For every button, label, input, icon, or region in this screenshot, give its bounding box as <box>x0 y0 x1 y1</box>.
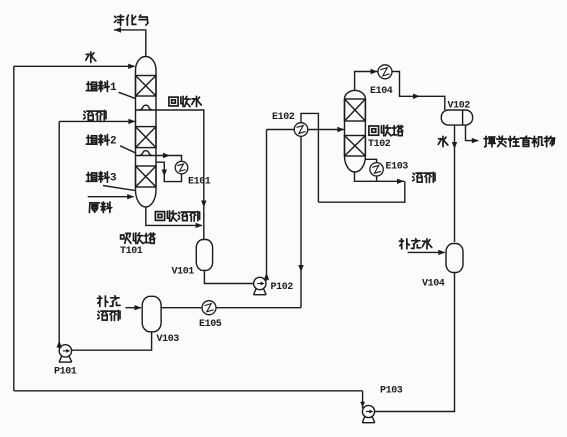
arrow overhead vapour to E104 <box>371 69 378 74</box>
vessel V101 <box>196 240 212 271</box>
label 水 <box>86 52 96 63</box>
chimney tray 1 of T101 <box>136 105 157 110</box>
label 吸收塔 <box>121 233 155 244</box>
arrow recovered solvent to junction <box>196 223 203 228</box>
arrow purified-gas outlet <box>114 27 121 32</box>
packing bed 3 of T101 <box>136 166 157 187</box>
arrow condensate to V102 <box>413 94 420 99</box>
label 填料3 <box>86 172 116 185</box>
pump P101 <box>59 345 72 362</box>
packing bed 2 of T101 <box>136 127 157 148</box>
wire water leg V102 to V104 <box>454 125 456 242</box>
separator drum V102 <box>441 110 472 125</box>
wire recovered solvent line <box>146 207 202 225</box>
svg-text:V101: V101 <box>172 267 195 278</box>
heat exchanger E104 <box>378 65 392 79</box>
wire lean solvent into E102 top <box>301 113 318 202</box>
wire E101 return to T101 <box>156 162 182 181</box>
pump P102 <box>254 277 267 294</box>
svg-text:3: 3 <box>110 173 117 185</box>
leader line for 填料2 <box>120 146 136 153</box>
wire T102 to E103 <box>365 159 376 162</box>
svg-text:2: 2 <box>110 135 117 147</box>
label 净化气 <box>114 15 147 26</box>
svg-text:E105: E105 <box>199 319 222 330</box>
wire V104 bottom to P103 <box>375 272 455 411</box>
label 填料2 <box>86 135 116 148</box>
wire solvent run to E105 <box>216 307 301 309</box>
wire VOC product line <box>466 125 479 141</box>
arrow E101 return downward <box>162 170 167 177</box>
svg-text:E102: E102 <box>272 112 295 123</box>
svg-text:E103: E103 <box>386 162 409 173</box>
label 补充水 <box>399 239 431 249</box>
leader line for 填料3 <box>103 186 135 191</box>
arrow P102 discharge upward <box>264 273 269 280</box>
svg-text:P101: P101 <box>54 367 77 378</box>
wire raw material feed line <box>88 196 134 198</box>
wire purified-gas overhead line <box>114 30 146 57</box>
arrow VOC product out <box>472 138 479 143</box>
wire T101 sidedraw to E101 <box>156 156 182 162</box>
arrow cooled solvent downward <box>298 265 303 272</box>
wire water feed line <box>14 65 135 67</box>
label 溶剂 (solvent feed) <box>84 110 106 120</box>
chimney tray 2 of T101 <box>136 151 157 156</box>
svg-text:V104: V104 <box>422 279 445 290</box>
svg-text:E104: E104 <box>370 86 393 97</box>
vessel V104 <box>446 244 463 273</box>
recovery tower T102 shell <box>345 90 366 172</box>
packing bed 2 of T102 <box>345 136 366 157</box>
wire E103 to bottoms line <box>376 176 378 181</box>
absorber tower T101 shell <box>136 57 157 208</box>
label 挥发性有机物 <box>484 136 554 147</box>
arrow makeup solvent into V103 <box>135 305 142 310</box>
wire P102 riser to E102 inlet <box>267 129 295 131</box>
heat exchanger E105 <box>202 301 216 315</box>
wire recovered water line <box>156 110 204 240</box>
pump P103 <box>362 405 375 422</box>
packing bed 1 of T101 <box>136 76 157 97</box>
arrow raw material into T101 <box>127 194 134 199</box>
arrow water into T101 <box>128 64 135 69</box>
wire makeup solvent inlet <box>126 307 141 309</box>
arrow makeup water into V104 <box>438 250 445 255</box>
svg-text:T102: T102 <box>368 139 391 150</box>
arrow recovered water downward <box>201 201 206 208</box>
arrow feed into T102 <box>337 127 344 132</box>
svg-text:P103: P103 <box>380 386 403 397</box>
wire V101 bottom to P102 <box>204 270 253 283</box>
wire E105 to V103 <box>161 307 202 309</box>
heat exchanger E102 <box>294 123 308 137</box>
label 原料 <box>89 202 111 213</box>
wire recycled water return (left vertical) <box>13 66 15 391</box>
arrow P101 discharge upward <box>57 341 62 348</box>
wire lean solvent from T102 bottom <box>355 172 405 181</box>
arrow lean solvent out <box>397 179 404 184</box>
wire P102 discharge riser to E102 <box>266 130 268 281</box>
label 回收溶剂 <box>155 211 199 221</box>
svg-text:T101: T101 <box>120 246 143 257</box>
heat exchanger E103 <box>370 163 383 176</box>
wire V103 bottom to P101 <box>72 332 152 350</box>
wire solvent feed line <box>59 120 135 122</box>
wire P103 suction from bottom run <box>362 391 364 409</box>
wire makeup water inlet <box>408 251 445 253</box>
label 填料1 <box>86 81 117 94</box>
vessel V103 <box>142 296 161 332</box>
arrow into P103 <box>360 402 365 408</box>
svg-text:E101: E101 <box>188 177 211 188</box>
svg-text:V103: V103 <box>157 334 180 345</box>
arrow sidedraw to E101 <box>163 153 170 158</box>
svg-text:V102: V102 <box>448 100 471 111</box>
wire E102 outlet to T102 feed <box>308 129 344 131</box>
packing bed 1 of T102 <box>345 99 366 121</box>
label 溶剂 (lean solvent) <box>413 172 435 182</box>
label 回收塔 <box>369 125 403 136</box>
label 水 (right) <box>438 136 448 146</box>
wire recycled water return (bottom run) <box>14 390 363 392</box>
svg-text:P102: P102 <box>271 282 294 293</box>
wire cooled solvent from E102 bottom down <box>300 136 302 307</box>
arrow water leg downward <box>452 142 457 149</box>
wire T102 overhead line <box>355 72 378 91</box>
wire lean solvent return loop <box>318 181 404 202</box>
wire P101 discharge riser to solvent feed <box>58 121 60 348</box>
label 回收水 <box>169 96 201 106</box>
heat exchanger E101 <box>175 161 188 174</box>
leader line for 填料1 <box>119 92 136 98</box>
label 补充溶剂 <box>98 296 121 307</box>
svg-text:1: 1 <box>110 82 117 94</box>
wire E104 to V102 <box>392 72 445 111</box>
arrow solvent into T101 <box>128 119 135 124</box>
